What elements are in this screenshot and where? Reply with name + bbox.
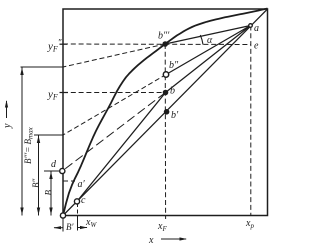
svg-text:e: e	[254, 41, 259, 52]
svg-text:B″′= Bmax: B″′= Bmax	[23, 126, 35, 164]
equilibrium curve	[63, 9, 268, 216]
svg-text:B′: B′	[66, 222, 74, 232]
dashed horizontal y_F'' line from axis through b''' to e	[63, 43, 251, 46]
point a (open)	[249, 24, 253, 28]
svg-text:B″: B″	[31, 179, 41, 188]
B'' dimension line	[38, 135, 40, 216]
svg-text:a: a	[254, 23, 259, 34]
extension line at B_max top	[21, 66, 64, 68]
svg-text:yF″: yF″	[47, 38, 62, 54]
point d (open)	[60, 168, 65, 173]
extension line at x_W below box	[77, 216, 79, 231]
plot box frame	[63, 9, 268, 216]
y axis arrow	[6, 101, 8, 118]
origin point (open)	[60, 213, 65, 218]
left dimension apparatus	[7, 67, 187, 239]
operating line L1: a to b'''	[165, 26, 250, 45]
svg-text:α: α	[207, 35, 213, 46]
arrowhead B'' bottom (down)	[37, 208, 40, 216]
svg-text:b″: b″	[169, 60, 179, 71]
svg-text:y: y	[2, 123, 13, 129]
svg-text:xW: xW	[85, 217, 97, 229]
tick on axis at y_F''	[60, 43, 68, 45]
point markers	[60, 24, 253, 218]
point b''' (filled)	[162, 41, 168, 47]
B dimension line	[50, 171, 52, 216]
arrowhead B top (up)	[49, 172, 52, 180]
arrowhead B bottom (down)	[49, 208, 52, 216]
point b'' (open)	[163, 72, 168, 77]
point b (filled)	[163, 90, 169, 96]
dashed horizontal y_F line from axis to b	[63, 92, 166, 94]
arrowhead x_W side (right)	[80, 226, 88, 229]
operating line L2: a to b''	[166, 26, 251, 75]
tick on axis at y_F	[60, 92, 69, 94]
extension of left axis below box for B' dimension	[62, 216, 64, 232]
angle alpha arc at b'''	[200, 35, 203, 45]
operating line L3: a to b	[166, 26, 251, 93]
svg-text:a′: a′	[78, 179, 86, 190]
dashed extension of L1 from b''' to y-axis (B_max intercept)	[63, 44, 165, 67]
B' arrow right	[78, 227, 88, 229]
B''' = B_max dimension line	[21, 67, 23, 216]
dashed vertical x_P line from a down to axis	[250, 26, 252, 216]
svg-text:yF: yF	[47, 89, 58, 102]
diagonal line O to top-right corner	[63, 9, 268, 216]
arrowhead B_max bottom (down)	[20, 208, 23, 216]
svg-text:b: b	[170, 86, 175, 97]
extension line at d level	[44, 170, 62, 172]
arrowhead y-axis (up)	[5, 100, 8, 108]
svg-text:B: B	[44, 190, 54, 196]
small dashed horizontal at a' level	[63, 180, 75, 182]
long-dash extension of L3 from b to d on y-axis	[62, 93, 165, 172]
svg-text:d: d	[51, 159, 57, 170]
point b' (filled)	[164, 109, 170, 115]
svg-text:c: c	[81, 195, 86, 206]
B' arrow left	[54, 227, 63, 229]
stripping line S1: c to b	[77, 93, 166, 202]
dashed drop from c to x axis (x_W)	[77, 203, 79, 222]
dashed vertical x_F line	[164, 44, 166, 219]
svg-text:b″′: b″′	[158, 31, 170, 42]
extension line at B'' top	[34, 134, 63, 136]
point c (open)	[74, 199, 79, 204]
arrowhead x-axis (right)	[180, 237, 188, 240]
svg-text:b′: b′	[171, 110, 179, 121]
arrowhead B'' top (up)	[37, 136, 40, 144]
x axis arrow	[161, 238, 186, 240]
svg-text:xF: xF	[157, 221, 167, 233]
arrowhead B_max top (up)	[20, 68, 23, 76]
arrowhead B' (left)	[54, 226, 62, 229]
svg-text:xp: xp	[245, 218, 254, 230]
svg-text:x: x	[148, 235, 154, 246]
dashed extension of L2 from b'' to y-axis (B'' intercept)	[63, 75, 166, 136]
